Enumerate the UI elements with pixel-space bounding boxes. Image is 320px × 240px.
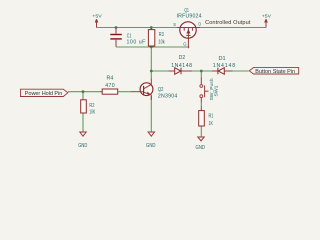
svg-text:GND: GND — [146, 143, 156, 149]
svg-text:10K: 10K — [89, 109, 95, 115]
svg-text:Button State Pin: Button State Pin — [255, 69, 295, 75]
svg-text:1K: 1K — [209, 121, 214, 127]
svg-text:SW1: SW1 — [213, 85, 218, 97]
svg-text:R2: R2 — [89, 103, 94, 109]
svg-text:1N4148: 1N4148 — [213, 63, 236, 69]
svg-text:10k: 10k — [158, 39, 165, 45]
svg-text:GND: GND — [196, 145, 206, 151]
svg-text:IRFU9024: IRFU9024 — [177, 14, 202, 20]
svg-text:G: G — [183, 41, 187, 46]
svg-text:2N3904: 2N3904 — [158, 94, 178, 100]
svg-text:+5V: +5V — [262, 14, 272, 19]
svg-text:R3: R3 — [159, 32, 164, 38]
svg-text:R4: R4 — [107, 76, 114, 82]
svg-text:+5V: +5V — [92, 14, 102, 19]
svg-text:GND: GND — [78, 143, 87, 149]
svg-text:C1: C1 — [127, 33, 132, 39]
svg-text:Q2: Q2 — [158, 87, 164, 93]
svg-text:470: 470 — [105, 83, 115, 89]
svg-text:D1: D1 — [219, 56, 226, 62]
svg-text:100 uF: 100 uF — [127, 40, 146, 46]
svg-text:1N4148: 1N4148 — [171, 63, 192, 69]
svg-text:Controlled Output: Controlled Output — [205, 20, 251, 26]
svg-text:R1: R1 — [209, 114, 214, 120]
svg-text:D2: D2 — [179, 55, 186, 61]
svg-text:S: S — [173, 22, 176, 27]
svg-text:Power Hold Pin: Power Hold Pin — [25, 91, 63, 97]
